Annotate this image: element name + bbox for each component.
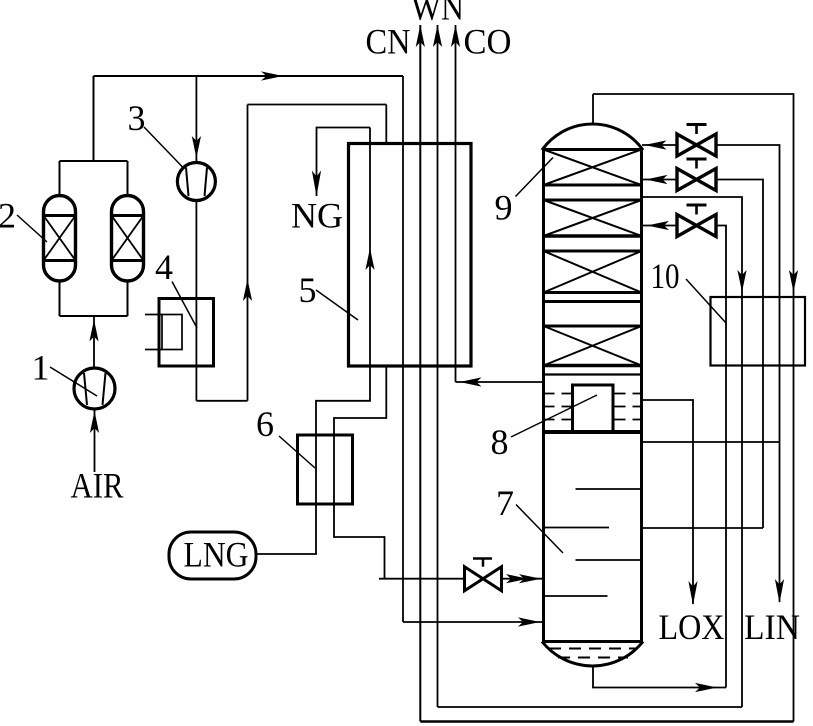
compressor 1: [74, 368, 115, 409]
wire valve V3 supply from bottoms: [716, 226, 726, 688]
column bottom bowl: [542, 642, 643, 666]
packing X 9d: [544, 326, 642, 366]
liquid dashes beside box 8: [544, 394, 572, 420]
svg-text:LOX: LOX: [659, 607, 725, 647]
column upper shell: [542, 148, 545, 642]
label 7: [516, 505, 563, 554]
svg-text:AIR: AIR: [71, 466, 124, 506]
svg-text:LNG: LNG: [184, 535, 249, 575]
wire LNG to box6: [256, 366, 370, 554]
adsorber top manifold: [60, 160, 128, 162]
LNG tank: [169, 532, 256, 579]
valve V1: [642, 144, 677, 146]
svg-text:CO: CO: [464, 22, 512, 62]
condenser box 8: [573, 385, 614, 432]
svg-text:2: 2: [0, 196, 16, 236]
adsorber vessel 2b: [112, 196, 144, 282]
svg-text:9: 9: [495, 188, 513, 228]
label 1: [50, 367, 97, 396]
svg-text:NG: NG: [291, 195, 343, 235]
svg-text:10: 10: [651, 256, 680, 296]
wire air line via box6: [334, 366, 386, 579]
packing X 9c: [544, 251, 642, 293]
adsorber bottom manifold: [60, 280, 128, 316]
main heat exchanger 5: [349, 144, 472, 367]
packing X 9a: [544, 150, 642, 186]
svg-text:1: 1: [32, 348, 50, 388]
label 2: [17, 215, 47, 242]
wire top gas to far right: [593, 94, 794, 722]
wire CO link from column: [456, 381, 544, 383]
heat exchanger 4: [159, 299, 214, 367]
bowl liquid dashes: [549, 648, 636, 650]
precooler box 6: [298, 435, 353, 504]
compressor 3: [177, 163, 215, 201]
adsorber vessel 2a: [44, 196, 76, 282]
svg-text:WN: WN: [411, 0, 464, 28]
svg-text:CN: CN: [366, 22, 411, 62]
label 4: [172, 282, 197, 329]
svg-text:6: 6: [256, 404, 274, 444]
packing X 9b: [544, 200, 642, 236]
svg-text:4: 4: [155, 247, 173, 287]
svg-text:3: 3: [128, 98, 146, 138]
wire top header to box5: [94, 75, 404, 77]
wire drop into compressor 3: [195, 76, 197, 163]
wire header2 to box5: [248, 104, 387, 106]
wire air feed arrow into column: [403, 621, 543, 623]
valve V4 (column feed throttle): [465, 567, 484, 591]
label 3: [144, 127, 183, 168]
wire AIR inlet: [94, 409, 96, 472]
label 9: [516, 158, 554, 197]
label 10: [686, 279, 726, 323]
subcooler box 10: [711, 297, 806, 366]
svg-text:LIN: LIN: [744, 607, 800, 647]
column 7 liquid lines: [576, 488, 642, 490]
wire riser to header2: [247, 105, 249, 401]
label 8: [511, 395, 597, 437]
column plates: [542, 148, 643, 151]
label 6: [279, 436, 315, 468]
valve V3: [643, 225, 677, 227]
wire compressor1 to manifold: [93, 316, 95, 368]
wire compressor 3 discharge down through box4: [195, 201, 197, 401]
wire air line2 through box5 down to column feed: [402, 76, 404, 622]
valve V2: [643, 179, 677, 181]
wire CO riser: [455, 25, 457, 382]
wire bottom return to CN riser: [420, 720, 793, 722]
wire WN riser: [437, 25, 439, 707]
wire throttle feed into column: [379, 578, 543, 580]
svg-text:7: 7: [496, 483, 514, 523]
wire air riser from adsorbers: [93, 76, 95, 161]
svg-text:8: 8: [491, 422, 509, 462]
label 5: [316, 290, 358, 320]
svg-text:5: 5: [299, 270, 317, 310]
wire WN withdrawal: [643, 197, 742, 707]
wire CN riser: [419, 25, 421, 722]
wire bottoms outlet: [593, 666, 726, 688]
wire valve V2 supply: [716, 180, 763, 529]
wire jog right: [196, 400, 247, 402]
wire column top riser: [592, 94, 594, 124]
column dome: [542, 124, 643, 150]
wire valve V1 supply / LIN leg: [716, 145, 780, 602]
wire LOX outlet: [643, 400, 693, 604]
wire LNG/NG line through box5: [369, 128, 371, 367]
wire NG outlet: [317, 128, 371, 197]
